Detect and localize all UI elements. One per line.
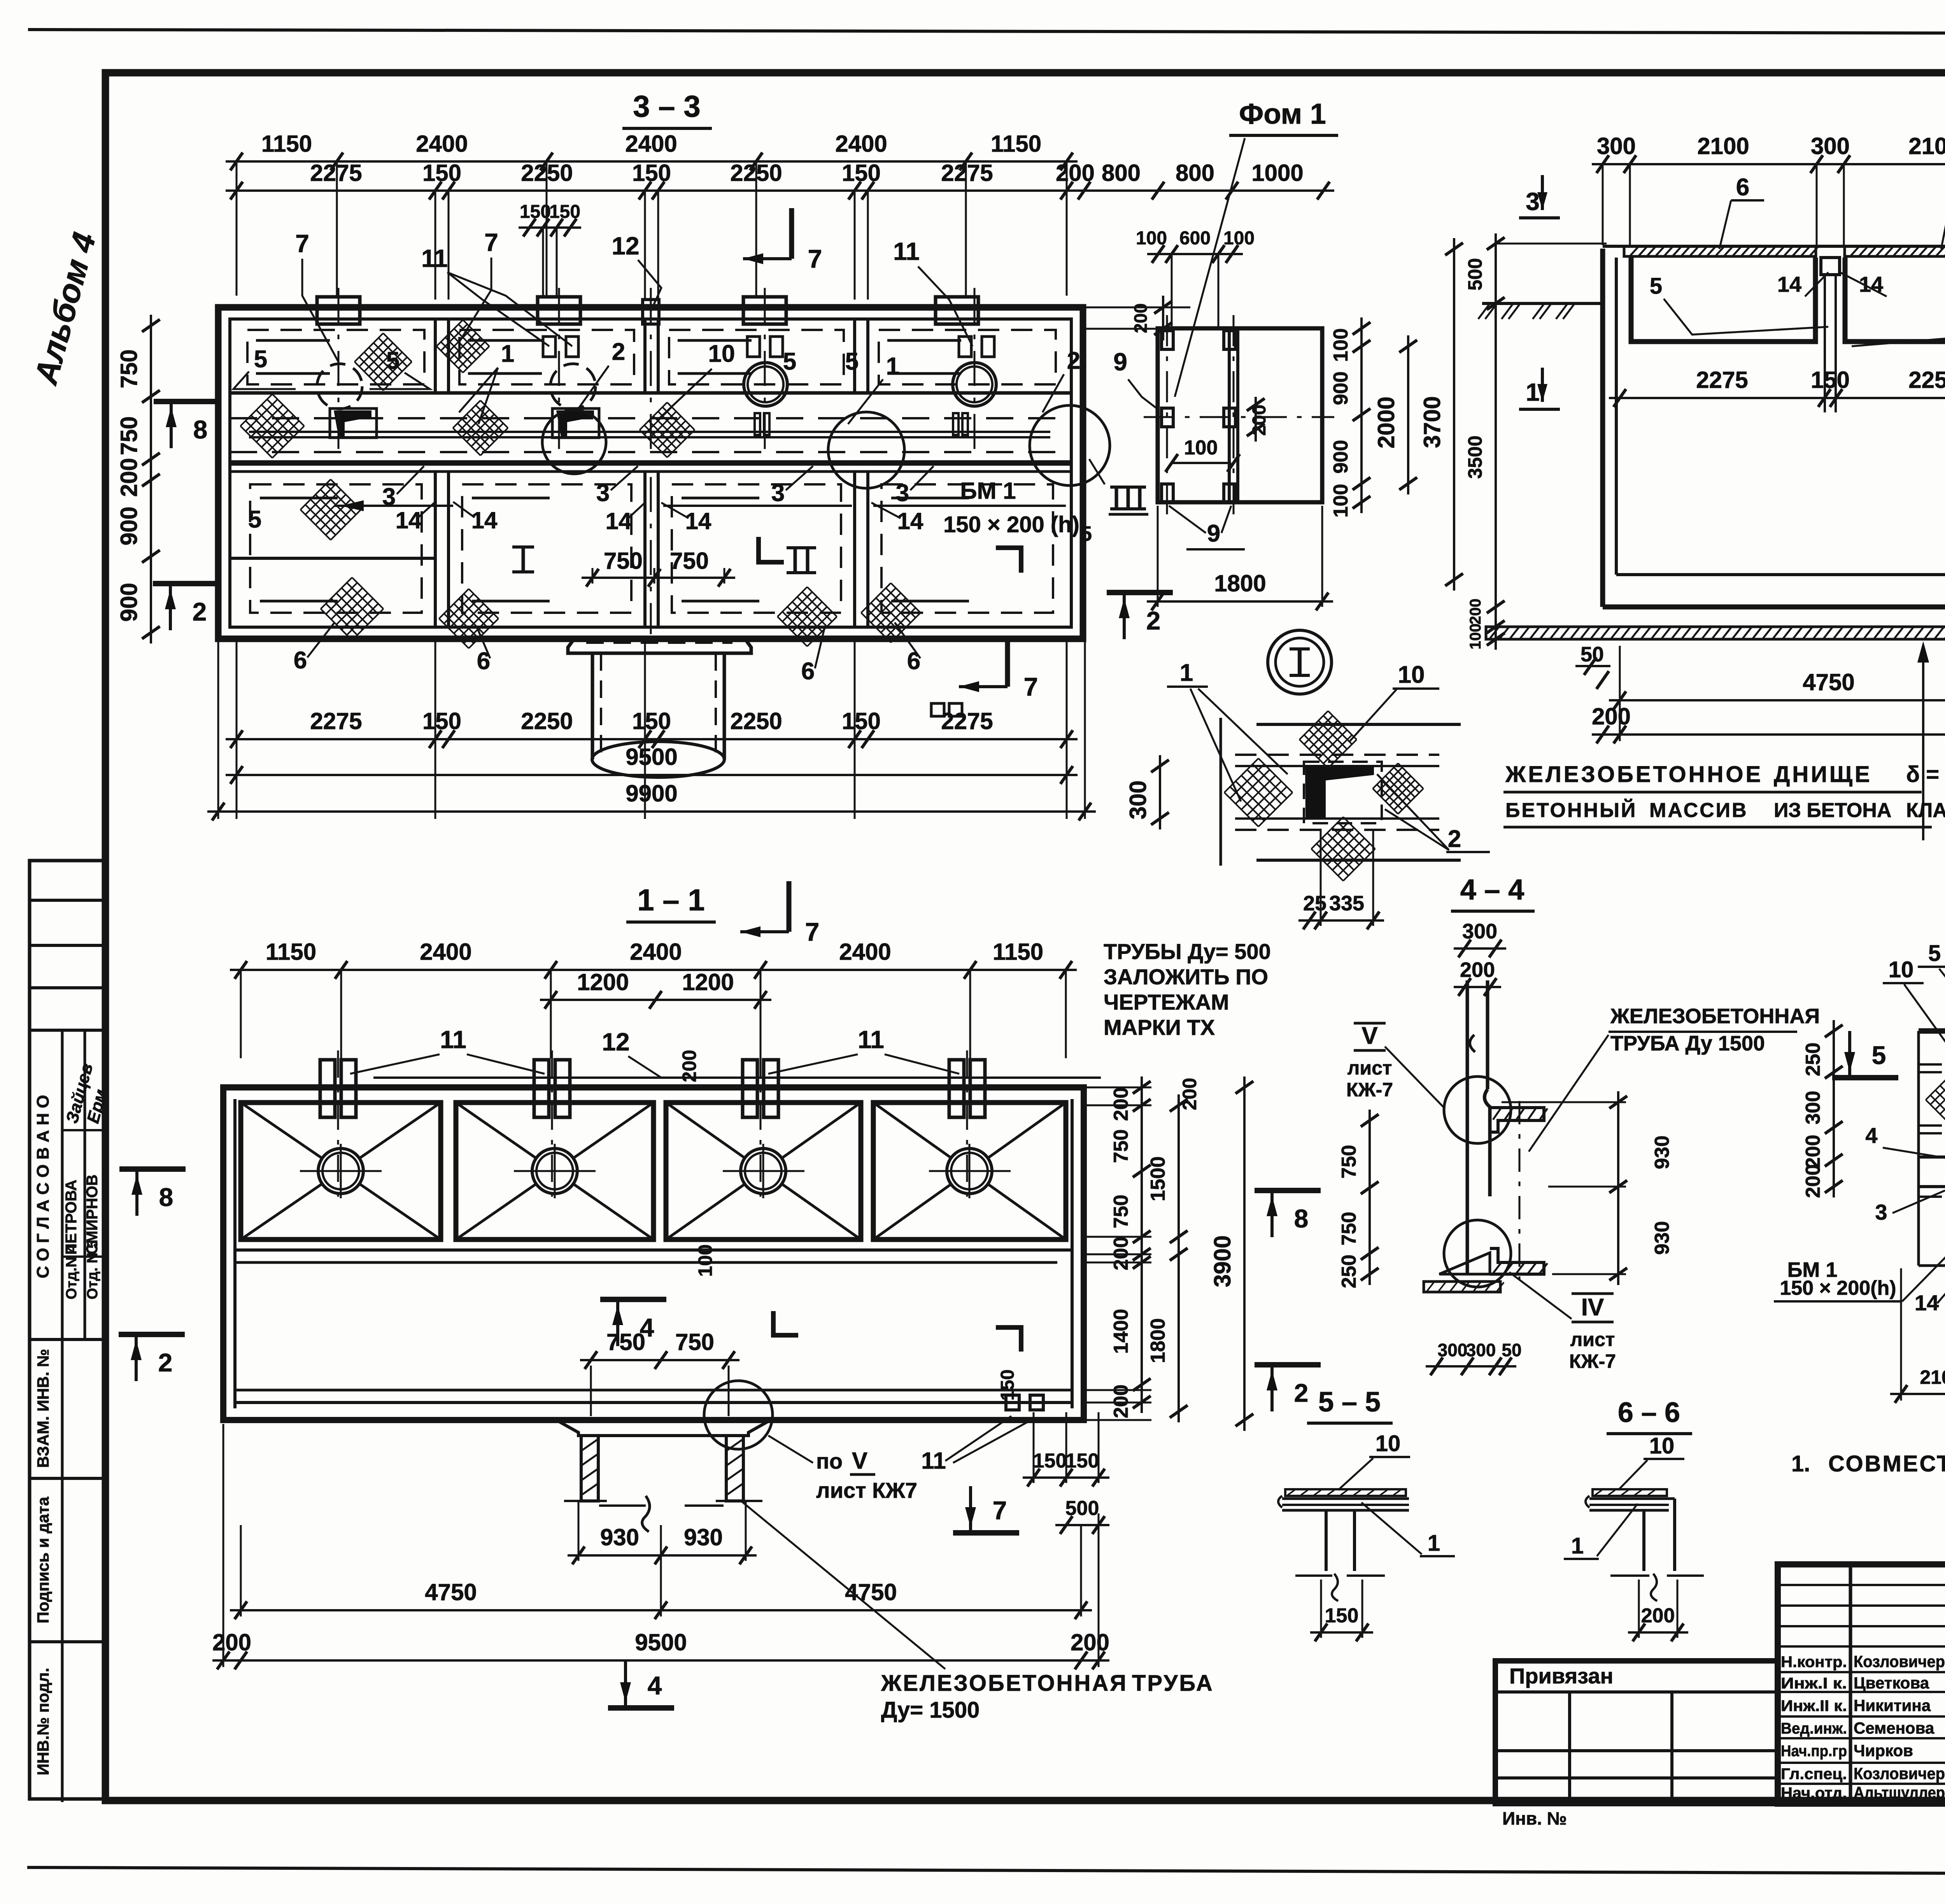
plan 3-3 chamber dashed inserts [247, 330, 424, 384]
svg-text:900: 900 [116, 583, 142, 622]
svg-text:БЕТОННЫЙ: БЕТОННЫЙ [1505, 799, 1637, 822]
svg-text:1150: 1150 [993, 939, 1043, 965]
svg-text:11: 11 [440, 1026, 466, 1054]
svg-text:2275: 2275 [941, 708, 993, 734]
svg-text:2000: 2000 [1373, 396, 1399, 448]
svg-text:300: 300 [1462, 920, 1497, 943]
section mark 2 below fom1 [1107, 590, 1173, 595]
svg-text:300: 300 [1125, 780, 1151, 819]
svg-text:150: 150 [842, 708, 881, 734]
plan 3-3 hatch patches [354, 333, 412, 390]
title block outer [1778, 1564, 1945, 1804]
svg-text:5: 5 [1928, 941, 1941, 966]
svg-text:300: 300 [1802, 1091, 1824, 1125]
svg-text:1: 1 [1571, 1533, 1584, 1559]
svg-text:ВЗАМ. ИНВ. №: ВЗАМ. ИНВ. № [34, 1349, 52, 1468]
plan 3-3 black corner glyphs [334, 410, 371, 437]
svg-text:25: 25 [1303, 892, 1326, 915]
section 2-2 chambers [1631, 258, 1815, 342]
svg-text:8: 8 [1294, 1204, 1309, 1233]
svg-text:1150: 1150 [991, 131, 1041, 157]
title block privyazan box [1495, 1661, 1778, 1804]
svg-text:5 – 5: 5 – 5 [1318, 1387, 1381, 1418]
svg-text:200: 200 [678, 1050, 700, 1082]
svg-text:ЖЕЛЕЗОБЕТОННОЕ: ЖЕЛЕЗОБЕТОННОЕ [1505, 762, 1763, 787]
svg-text:Альтшуллер: Альтшуллер [1854, 1783, 1945, 1802]
svg-text:930: 930 [1651, 1136, 1673, 1169]
svg-text:150: 150 [632, 708, 671, 734]
section 6-6 drawing [1593, 1489, 1667, 1496]
detail left hatches [1926, 1071, 1945, 1128]
svg-text:3700: 3700 [1419, 396, 1445, 448]
svg-text:100: 100 [694, 1244, 716, 1276]
plan 3-3 mid band lines [230, 391, 1071, 395]
svg-text:5: 5 [386, 347, 400, 374]
svg-text:11: 11 [858, 1026, 884, 1054]
svg-text:ТРУБА: ТРУБА [1132, 1671, 1214, 1696]
svg-text:6: 6 [907, 648, 920, 675]
svg-text:150: 150 [1033, 1450, 1067, 1472]
plan 3-3 detail circles on plan [542, 410, 606, 474]
svg-text:Никитина: Никитина [1854, 1696, 1931, 1715]
svg-text:1400: 1400 [1110, 1309, 1132, 1354]
svg-text:10: 10 [1398, 661, 1425, 688]
svg-text:БМ 1: БМ 1 [960, 478, 1016, 504]
svg-text:300: 300 [1597, 133, 1636, 159]
section 4-4 dashed center [1519, 1101, 1521, 1280]
svg-text:ДНИЩЕ: ДНИЩЕ [1774, 762, 1872, 787]
svg-text:7: 7 [993, 1496, 1007, 1525]
album handwritten label [27, 229, 103, 389]
section 4-4 base slab [1424, 1282, 1500, 1292]
svg-text:900: 900 [1330, 440, 1352, 474]
svg-text:9500: 9500 [635, 1629, 687, 1655]
svg-text:МАССИВ: МАССИВ [1649, 799, 1748, 822]
svg-text:1 – 1: 1 – 1 [637, 883, 704, 917]
svg-text:2250: 2250 [521, 708, 573, 734]
svg-text:1: 1 [501, 340, 514, 367]
section 2-2 ground lines [1482, 302, 1603, 305]
svg-text:12: 12 [612, 232, 639, 260]
svg-text:2: 2 [1146, 606, 1161, 635]
plan 1-1 left dims [119, 1166, 186, 1172]
svg-text:2400: 2400 [839, 939, 891, 965]
svg-text:750: 750 [116, 416, 142, 455]
svg-text:100: 100 [1467, 624, 1484, 650]
section 4-4 bottom dims [1426, 1365, 1516, 1368]
svg-text:100: 100 [1184, 437, 1218, 459]
svg-text:V: V [852, 1448, 867, 1474]
svg-text:750: 750 [1338, 1145, 1360, 1179]
svg-text:лист: лист [1347, 1057, 1392, 1079]
svg-text:9: 9 [1113, 348, 1127, 376]
svg-text:250: 250 [1338, 1255, 1360, 1289]
svg-text:800: 800 [1176, 160, 1214, 186]
plan 1-1 bottom dims [568, 1554, 757, 1557]
section marks 8 2 mid [1255, 1188, 1321, 1193]
svg-text:5: 5 [248, 506, 261, 533]
svg-text:930: 930 [684, 1524, 723, 1550]
svg-text:2400: 2400 [420, 939, 471, 965]
svg-text:150: 150 [422, 160, 461, 186]
detail left sec marks 5 [1832, 1075, 1898, 1080]
plan 1-1 detail circle at pipe [704, 1381, 773, 1449]
svg-text:14: 14 [1915, 1290, 1939, 1315]
svg-text:3: 3 [1875, 1200, 1887, 1224]
svg-text:1: 1 [1428, 1531, 1440, 1556]
svg-text:3: 3 [1526, 188, 1540, 216]
svg-text:2: 2 [1448, 826, 1461, 852]
svg-text:150: 150 [520, 202, 551, 222]
svg-text:КЛАССА В 3.5: КЛАССА В 3.5 [1906, 799, 1945, 822]
section 2-2 mid dims [1609, 397, 1945, 399]
svg-text:200: 200 [116, 458, 142, 497]
svg-text:900: 900 [1330, 372, 1352, 405]
detail I drawing [1220, 718, 1222, 866]
section 4-4 top dims [1454, 947, 1506, 950]
svg-text:СОВМЕСТНО С ДАННЫМ: СОВМЕСТНО С ДАННЫМ [1828, 1451, 1945, 1476]
svg-text:50: 50 [1502, 1340, 1521, 1360]
svg-text:14: 14 [471, 507, 498, 533]
svg-text:Подпись и дата: Подпись и дата [34, 1497, 52, 1623]
svg-text:8: 8 [159, 1183, 173, 1211]
svg-text:11: 11 [893, 237, 920, 265]
svg-text:2250: 2250 [730, 708, 782, 734]
plan 3-3 roof pipe stubs [317, 297, 360, 324]
left margin table grid [30, 861, 105, 1799]
plan 3-3 top chamber partitions [434, 319, 437, 393]
svg-text:6 – 6: 6 – 6 [1618, 1397, 1680, 1428]
svg-text:СМИРНОВ: СМИРНОВ [84, 1175, 101, 1255]
svg-text:2250: 2250 [1908, 367, 1945, 393]
section 2-2 bottom slab [1486, 627, 1945, 639]
svg-text:1500: 1500 [1147, 1156, 1169, 1201]
svg-text:8: 8 [193, 415, 208, 444]
fom 1 plan [1158, 328, 1322, 502]
fom 1 stubs [1162, 331, 1173, 349]
svg-text:11: 11 [921, 1448, 946, 1474]
svg-text:200: 200 [1071, 1629, 1109, 1655]
plan 3-3 left dims [150, 315, 152, 643]
svg-text:2275: 2275 [941, 160, 993, 186]
svg-text:10: 10 [1649, 1433, 1675, 1459]
plan 3-3 outer walls [218, 307, 1083, 639]
svg-text:С О Г Л А С О В А Н О: С О Г Л А С О В А Н О [33, 1095, 53, 1278]
section 4-4 right dims [1617, 1091, 1619, 1285]
svg-text:Цветкова: Цветкова [1854, 1674, 1929, 1692]
svg-text:5: 5 [1080, 522, 1092, 545]
svg-text:7: 7 [295, 230, 309, 258]
svg-text:200: 200 [1802, 1135, 1824, 1169]
section 5-5 dim 150 [1310, 1631, 1373, 1634]
plan 1-1 top dims [230, 969, 1077, 971]
plan 1-1 bottom section mark 4 [608, 1705, 674, 1711]
svg-text:Гл.спец.: Гл.спец. [1781, 1765, 1847, 1783]
svg-text:IV: IV [1581, 1294, 1604, 1321]
svg-text:200: 200 [1641, 1604, 1675, 1627]
svg-text:δ = 200: δ = 200 [1906, 762, 1945, 787]
plan 3-3 lower partitions [434, 472, 437, 627]
svg-text:500: 500 [1464, 258, 1486, 290]
svg-text:14: 14 [606, 508, 632, 534]
svg-text:1150: 1150 [266, 939, 316, 965]
svg-text:Инв. №: Инв. № [1502, 1808, 1567, 1829]
section 5-5 drawing [1285, 1489, 1406, 1496]
plan 3-3 distribution circles [317, 364, 362, 409]
svg-text:2: 2 [193, 597, 207, 626]
detail left dim col [1833, 1020, 1835, 1197]
section 6-6 dim 200 [1628, 1631, 1688, 1634]
svg-text:4750: 4750 [1803, 669, 1854, 695]
svg-text:14: 14 [396, 507, 422, 533]
plan 1-1 crossed squares [241, 1103, 441, 1240]
svg-text:3500: 3500 [1464, 435, 1486, 479]
svg-text:9900: 9900 [626, 780, 677, 806]
fom 1 bottom dim 1800 [1147, 600, 1333, 603]
svg-text:Козловичер: Козловичер [1854, 1652, 1945, 1671]
svg-text:150: 150 [632, 160, 671, 186]
svg-text:930: 930 [600, 1524, 639, 1550]
svg-text:5: 5 [1650, 274, 1662, 299]
svg-text:200: 200 [1110, 1087, 1132, 1121]
svg-text:Фом 1: Фом 1 [1239, 98, 1326, 130]
fom 1 right dims [1360, 317, 1363, 513]
section 2-2 top dims [1592, 163, 1945, 165]
svg-text:150: 150 [549, 202, 580, 222]
section 2-2 bottom arrow leader [1922, 646, 1924, 840]
svg-text:750: 750 [1110, 1195, 1132, 1229]
svg-text:1.: 1. [1791, 1451, 1810, 1476]
svg-text:900: 900 [116, 507, 142, 545]
svg-text:лист КЖ7: лист КЖ7 [816, 1478, 917, 1503]
svg-text:Вед.инж.: Вед.инж. [1781, 1720, 1847, 1737]
svg-text:ТРУБА Ду 1500: ТРУБА Ду 1500 [1610, 1032, 1765, 1055]
svg-text:750: 750 [604, 548, 643, 574]
svg-text:5: 5 [845, 348, 859, 375]
svg-text:1: 1 [1526, 378, 1540, 406]
svg-text:100: 100 [1223, 228, 1255, 249]
svg-text:7: 7 [484, 228, 498, 256]
detail I circle [1268, 630, 1332, 694]
svg-text:2: 2 [612, 338, 625, 365]
svg-text:14: 14 [1777, 272, 1801, 296]
svg-text:250: 250 [1802, 1043, 1824, 1076]
plan 1-1 outer walls [223, 1087, 1084, 1420]
plan 3-3 bottom dims [226, 738, 1078, 740]
title block rows roles [1778, 1671, 1945, 1673]
plan 1-1 right dims [1141, 1076, 1143, 1265]
svg-text:Козловичер: Козловичер [1854, 1764, 1945, 1783]
plan 1-1 top stubs [320, 1060, 335, 1117]
svg-text:1150: 1150 [261, 131, 312, 157]
svg-text:150 × 200(h): 150 × 200(h) [1780, 1277, 1896, 1299]
svg-text:750: 750 [670, 548, 709, 574]
svg-text:ЧЕРТЕЖАМ: ЧЕРТЕЖАМ [1104, 990, 1229, 1014]
svg-text:7: 7 [1024, 672, 1038, 701]
svg-text:Инж.I к.: Инж.I к. [1781, 1675, 1847, 1692]
plan 1-1 inner band walls [235, 1248, 1072, 1252]
svg-text:12: 12 [602, 1028, 629, 1056]
svg-text:300: 300 [1811, 133, 1850, 159]
plan 1-1 dim 750 750 [580, 1359, 739, 1361]
svg-text:200: 200 [1592, 703, 1631, 729]
svg-text:1: 1 [886, 353, 899, 380]
svg-text:2400: 2400 [630, 939, 682, 965]
svg-text:1200: 1200 [682, 969, 734, 995]
svg-text:2275: 2275 [310, 708, 362, 734]
svg-text:200: 200 [1056, 160, 1095, 186]
svg-text:3900: 3900 [1209, 1235, 1235, 1287]
section 4-4 bottom channel [1490, 1248, 1544, 1274]
svg-text:3: 3 [596, 480, 610, 507]
plan 1-1 pipe outlet [556, 1420, 771, 1436]
svg-text:по: по [816, 1449, 843, 1473]
svg-text:750: 750 [1338, 1212, 1360, 1246]
svg-text:100: 100 [1330, 484, 1352, 518]
svg-text:Нач.пр.гр: Нач.пр.гр [1781, 1743, 1847, 1760]
svg-text:6: 6 [1736, 174, 1749, 201]
plan 3-3 inner dim 750 750 [592, 568, 594, 584]
svg-text:9500: 9500 [626, 744, 677, 770]
svg-text:КЖ-7: КЖ-7 [1346, 1079, 1393, 1101]
svg-text:2100: 2100 [1908, 133, 1945, 159]
svg-text:ИНВ.№ подл.: ИНВ.№ подл. [34, 1668, 52, 1776]
svg-text:4: 4 [1865, 1123, 1877, 1148]
svg-text:2: 2 [1067, 347, 1080, 374]
svg-text:335: 335 [1329, 892, 1364, 915]
detail for 5-5 (left big node) [1919, 1028, 1945, 1034]
svg-text:750: 750 [606, 1329, 645, 1355]
plan 3-3 right small marks [755, 413, 760, 435]
svg-text:200: 200 [1179, 1078, 1200, 1110]
svg-text:1200: 1200 [577, 969, 629, 995]
svg-text:750: 750 [675, 1329, 714, 1355]
svg-text:3 – 3: 3 – 3 [633, 89, 700, 123]
svg-text:6: 6 [801, 658, 815, 685]
section 2-2 cover slabs [1624, 246, 1816, 256]
section 2-2 left dims [1495, 233, 1497, 650]
svg-text:200: 200 [1802, 1164, 1824, 1198]
svg-text:ПЕТРОВА: ПЕТРОВА [63, 1180, 80, 1255]
svg-text:500: 500 [1065, 1497, 1099, 1520]
section 4-4 left dims [1369, 1110, 1371, 1285]
svg-text:800: 800 [1102, 160, 1141, 186]
svg-text:300: 300 [1466, 1340, 1496, 1360]
fom 1 centerlines [1144, 416, 1334, 418]
svg-text:V: V [1361, 1022, 1377, 1049]
sheet thin border [28, 30, 1945, 34]
plan 3-3 bottom pipe outlet [568, 639, 751, 653]
plan 3-3 roman marks [522, 547, 525, 572]
svg-text:4: 4 [648, 1671, 662, 1700]
svg-text:3: 3 [771, 480, 785, 507]
svg-text:2400: 2400 [416, 131, 468, 157]
svg-text:Привязан: Привязан [1509, 1664, 1613, 1688]
svg-text:ЗАЛОЖИТЬ ПО: ЗАЛОЖИТЬ ПО [1104, 964, 1268, 989]
svg-text:100: 100 [1330, 328, 1352, 362]
svg-text:1000: 1000 [1251, 160, 1303, 186]
svg-text:10: 10 [708, 340, 735, 367]
fom 1 dims small [1147, 253, 1243, 255]
svg-text:2275: 2275 [1696, 367, 1748, 393]
svg-text:КЖ-7: КЖ-7 [1569, 1350, 1616, 1372]
detail I bottom dims [1298, 919, 1384, 922]
svg-text:Чирков: Чирков [1854, 1741, 1913, 1760]
svg-text:14: 14 [685, 508, 711, 534]
svg-text:750: 750 [116, 349, 142, 388]
svg-text:150: 150 [1811, 367, 1850, 393]
svg-text:2: 2 [1294, 1378, 1309, 1407]
plan 3-3 bottom small squares [931, 703, 944, 716]
svg-text:ТРУБЫ Ду= 500: ТРУБЫ Ду= 500 [1104, 939, 1271, 964]
svg-text:4750: 4750 [425, 1579, 477, 1605]
svg-text:7: 7 [808, 244, 822, 273]
svg-text:7: 7 [805, 917, 820, 946]
section 4-4 channel and slab top [1490, 1108, 1544, 1132]
svg-text:750: 750 [1110, 1129, 1132, 1163]
svg-text:200: 200 [212, 1629, 251, 1655]
svg-text:100: 100 [1136, 228, 1167, 249]
svg-text:150: 150 [1065, 1450, 1099, 1472]
svg-text:300: 300 [1438, 1340, 1468, 1360]
svg-text:600: 600 [1179, 228, 1211, 249]
svg-text:2100: 2100 [1697, 133, 1749, 159]
svg-text:2400: 2400 [835, 131, 887, 157]
svg-text:лист: лист [1570, 1329, 1615, 1350]
plan 3-3 dashed axes verticals [338, 288, 340, 469]
svg-text:Ду= 1500: Ду= 1500 [881, 1697, 980, 1723]
section 4-4 detail circles [1444, 1076, 1511, 1143]
svg-text:14: 14 [897, 508, 923, 534]
svg-text:150 × 200 (h): 150 × 200 (h) [943, 512, 1079, 537]
svg-text:6: 6 [294, 647, 307, 674]
svg-text:1: 1 [1180, 659, 1193, 686]
svg-text:ЖЕЛЕЗОБЕТОННАЯ: ЖЕЛЕЗОБЕТОННАЯ [1610, 1005, 1820, 1028]
svg-text:10: 10 [1889, 957, 1914, 982]
svg-text:Нач.отд.: Нач.отд. [1781, 1785, 1847, 1802]
svg-text:2400: 2400 [625, 131, 677, 157]
svg-text:Н.контр.: Н.контр. [1781, 1653, 1847, 1671]
svg-text:5: 5 [254, 346, 267, 373]
plan 3-3 stub anchor squares [543, 337, 555, 357]
svg-text:1800: 1800 [1147, 1318, 1169, 1363]
svg-text:10: 10 [1376, 1431, 1401, 1456]
svg-text:200: 200 [1460, 958, 1495, 982]
svg-text:ИЗ БЕТОНА: ИЗ БЕТОНА [1774, 799, 1891, 822]
svg-text:5: 5 [783, 348, 796, 375]
svg-text:930: 930 [1651, 1221, 1673, 1255]
svg-text:2100: 2100 [1920, 1366, 1945, 1388]
svg-text:Инж.II к.: Инж.II к. [1781, 1697, 1847, 1715]
plan 3-3 top dims [226, 160, 1078, 163]
title block column grid [1849, 1564, 1852, 1804]
svg-text:150: 150 [842, 160, 881, 186]
svg-text:5: 5 [1872, 1041, 1886, 1069]
section 2-2 tank walls [1600, 249, 1605, 607]
svg-text:150: 150 [997, 1369, 1018, 1401]
svg-text:ЖЕЛЕЗОБЕТОННАЯ: ЖЕЛЕЗОБЕТОННАЯ [881, 1671, 1128, 1696]
svg-text:9: 9 [1207, 520, 1220, 547]
title block rows upper [1778, 1584, 1945, 1586]
svg-text:4 – 4: 4 – 4 [1460, 873, 1524, 906]
svg-text:1800: 1800 [1214, 570, 1266, 596]
svg-text:150: 150 [1325, 1604, 1359, 1627]
svg-text:3: 3 [896, 480, 909, 507]
svg-text:2: 2 [158, 1348, 173, 1377]
plan 3-3 small dims 150 150 over stub [519, 226, 581, 229]
svg-text:МАРКИ ТХ: МАРКИ ТХ [1104, 1015, 1215, 1040]
detail I left dim 300 [1159, 755, 1161, 829]
